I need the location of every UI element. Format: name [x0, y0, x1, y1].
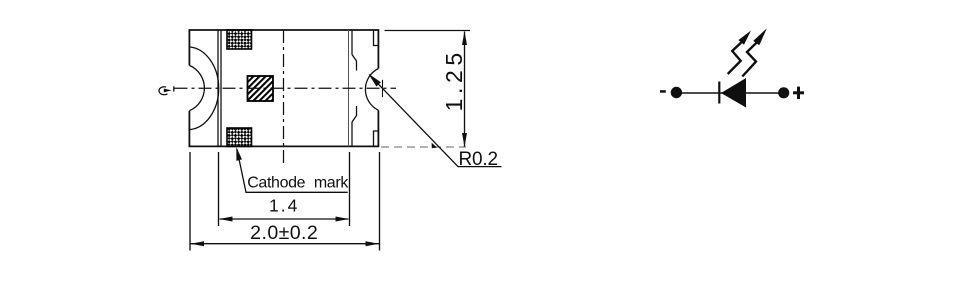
emission arrow left [728, 31, 751, 75]
bottom-right corner slot [374, 131, 379, 146]
dimension 1.25 extension line bottom (dashed) [381, 146, 466, 148]
arrowhead 2.0 left [191, 241, 205, 246]
svg-text:Cathode mark: Cathode mark [247, 175, 349, 192]
svg-text:2.0±0.2: 2.0±0.2 [250, 222, 318, 244]
cathode mark square top [227, 30, 252, 49]
arrowhead 1.4 left [219, 217, 233, 222]
cathode bar [718, 82, 720, 104]
right plating arc jog bottom [352, 106, 357, 122]
dimension line 1.25 [464, 32, 466, 147]
top-right corner slot [374, 30, 379, 46]
left terminal inner edge double line [217, 30, 219, 146]
left castellation notch R0.2 [189, 65, 204, 110]
arrowhead 1.25 bottom [462, 133, 467, 147]
svg-text:1.25: 1.25 [441, 48, 467, 111]
left terminal dot [671, 87, 682, 98]
dimension 1.4 extension line left [218, 152, 220, 226]
arrowhead 1.25 top [462, 31, 467, 45]
horizontal centerline [175, 87, 397, 89]
plus sign [793, 87, 804, 99]
right terminal dot [778, 87, 789, 98]
right castellation notch R0.2 [365, 69, 378, 111]
arrowhead 2.0 right [366, 241, 380, 246]
leader R0.2 [370, 75, 502, 167]
vertical centerline [283, 30, 285, 165]
right plating arc jog top [352, 55, 357, 71]
right terminal inner edge double line [348, 30, 350, 146]
svg-text:R0.2: R0.2 [459, 149, 498, 170]
small arrow on dashed line [432, 143, 437, 149]
arrowhead cathode mark leader [236, 147, 242, 161]
svg-text:1.4: 1.4 [269, 196, 299, 216]
cathode mark square bottom [227, 128, 252, 146]
leader cathode mark [237, 149, 348, 192]
center pad hatched square [248, 76, 274, 101]
left terminal plating arc [189, 47, 218, 130]
diode triangle [721, 78, 746, 108]
centerline symbol arrow [164, 89, 172, 93]
package outline rectangle [189, 30, 378, 146]
wire [676, 92, 784, 94]
dimension line 2.0 [191, 243, 380, 245]
minus sign [660, 90, 666, 93]
arrowhead 1.4 right [336, 217, 350, 222]
dimension 2.0 extension line left [189, 152, 191, 251]
right notch center tick [382, 80, 384, 97]
dimension 2.0 extension line right [379, 152, 381, 251]
emission arrow right [742, 28, 767, 76]
dimension line 1.4 [220, 218, 349, 220]
dimension 1.4 extension line right [349, 152, 351, 226]
centerline symbol [159, 86, 174, 94]
dimension 1.25 extension line top [385, 30, 471, 32]
arrowhead R0.2 leader [368, 74, 381, 87]
